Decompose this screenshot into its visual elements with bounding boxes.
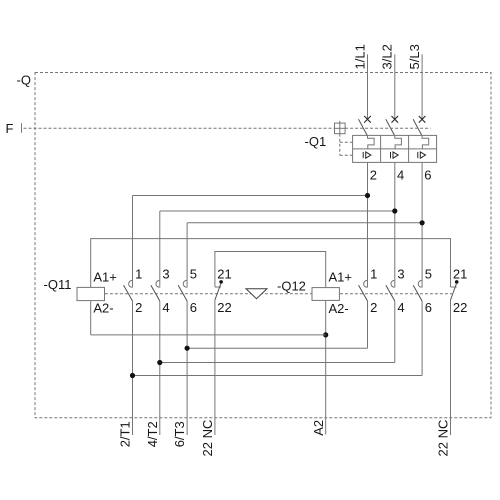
breaker output wire 2: [367, 162, 369, 287]
feed wire phase 1 vertical: [132, 196, 134, 288]
supply wire 3/L2: [394, 54, 396, 119]
wire Q11 out 4 to T2: [159, 301, 161, 435]
Q11 aux dot: [219, 280, 223, 284]
svg-text:5: 5: [190, 267, 197, 282]
trip linkage dashed vertical: [339, 134, 341, 156]
contactor Q12 fixed contact 1: [364, 280, 367, 287]
svg-text:-Q11: -Q11: [44, 277, 72, 292]
thermal overload element pole 3: [422, 135, 429, 149]
breaker output wire 4: [394, 162, 396, 287]
wire Q12 aux 22 down: [450, 300, 452, 435]
breaker body box: [353, 135, 437, 162]
junction dot crossover 1: [185, 346, 190, 351]
wire Q12 out 6 to T1 horizontal: [133, 375, 423, 377]
trip unit square: [335, 123, 346, 134]
supply wire 1/L1: [367, 54, 369, 119]
svg-text:22 NC: 22 NC: [200, 420, 215, 457]
coil Q11: [77, 287, 105, 300]
contactor Q12 blade 1/2: [359, 285, 368, 301]
junction dot phase 1: [365, 193, 370, 198]
contactor Q11 blade 1/2: [124, 285, 133, 301]
mechanical interlock triangle: [246, 289, 267, 299]
svg-text:-Q1: -Q1: [305, 134, 327, 149]
breaker contact X pole 3: [419, 116, 426, 123]
trip linkage dashed to magnetic: [340, 154, 353, 156]
wire Q11 aux 21 to Q12 A1: [215, 252, 326, 288]
svg-text:A1+: A1+: [329, 269, 353, 284]
wire Q11 A1 to Q12 aux 21: [91, 239, 451, 288]
breaker linkage dashed: [345, 127, 431, 129]
contactor Q12 blade 5/6: [413, 285, 422, 301]
feed wire phase 2 horizontal: [160, 210, 395, 212]
svg-text:6: 6: [424, 168, 431, 183]
trip line F dashed: [24, 127, 335, 129]
contactor Q12 fixed contact 5: [418, 280, 421, 287]
Q12 aux blade 21/22: [451, 283, 457, 300]
contactor Q11 blade 3/4: [151, 285, 160, 301]
svg-text:6/T3: 6/T3: [172, 421, 187, 447]
wire Q12 out 4 to T2 vertical: [394, 301, 396, 363]
wire Q11 aux 22 down: [214, 300, 216, 435]
svg-text:A2: A2: [311, 420, 326, 436]
junction dot crossover 3: [130, 373, 135, 378]
contactor Q11 fixed contact 5: [183, 280, 186, 287]
svg-text:22: 22: [453, 300, 467, 315]
contactor Q12 fixed contact 3: [391, 280, 394, 287]
svg-text:22 NC: 22 NC: [436, 420, 451, 457]
breaker blade pole 3: [413, 119, 422, 135]
svg-text:6: 6: [190, 300, 197, 315]
feed wire phase 3 horizontal: [187, 222, 422, 224]
breaker blade pole 1: [359, 119, 368, 135]
svg-text:5/L3: 5/L3: [407, 44, 422, 69]
svg-text:3: 3: [162, 267, 169, 282]
Q11 aux blade 21/22: [215, 283, 221, 300]
svg-text:1/L1: 1/L1: [352, 44, 367, 69]
feed wire phase 2 vertical: [159, 211, 161, 288]
wire Q11 out 2 to T1: [132, 301, 134, 435]
svg-text:3/L2: 3/L2: [380, 44, 395, 69]
svg-text:4: 4: [162, 300, 169, 315]
Q12 aux stub: [451, 286, 457, 288]
svg-text:2: 2: [370, 168, 377, 183]
feed wire phase 1 horizontal: [133, 195, 368, 197]
wire Q12 coil A2 down to terminal: [325, 300, 327, 434]
breaker body divider 1: [380, 135, 382, 162]
svg-text:A2-: A2-: [93, 300, 113, 315]
wire Q11 out 6 to T3: [186, 301, 188, 435]
svg-text:A2-: A2-: [329, 301, 349, 316]
magnetic trip I> pole 3: [418, 152, 426, 158]
wire Q12 out 6 to T1 vertical: [421, 301, 423, 376]
wire Q12 out 2 to T3 horizontal: [187, 347, 367, 349]
enclosure dashed box -Q: [35, 73, 491, 418]
contactor Q11 fixed contact 1: [129, 280, 132, 287]
breaker body divider mid: [353, 148, 437, 150]
svg-text:-Q: -Q: [17, 72, 31, 87]
svg-text:2/T1: 2/T1: [118, 421, 133, 447]
breaker body divider 2: [408, 135, 410, 162]
svg-text:22: 22: [217, 300, 231, 315]
svg-text:4: 4: [397, 168, 404, 183]
svg-text:1: 1: [135, 267, 142, 282]
magnetic trip I> pole 2: [391, 152, 399, 158]
trip line F tick: [21, 123, 23, 133]
svg-text:21: 21: [453, 267, 467, 282]
contactor Q11 fixed contact 3: [156, 280, 159, 287]
contactor Q12 blade 3/4: [386, 285, 395, 301]
magnetic trip I> pole 1: [363, 152, 371, 158]
svg-text:5: 5: [425, 267, 432, 282]
supply wire 5/L3: [421, 54, 423, 119]
junction dot crossover 2: [157, 360, 162, 365]
wire Q12 out 2 to T3 vertical: [367, 301, 369, 348]
actuation dashed line: [105, 293, 452, 295]
coil Q12: [312, 288, 339, 301]
svg-text:2: 2: [370, 300, 377, 315]
svg-text:F: F: [6, 121, 14, 136]
breaker contact X pole 1: [364, 116, 371, 123]
wire Q12 out 4 to T2 horizontal: [160, 362, 395, 364]
wire Q11 coil A2 down: [90, 301, 92, 335]
thermal overload element pole 1: [368, 135, 375, 149]
Q12 aux dot: [455, 280, 459, 284]
svg-text:4: 4: [397, 300, 404, 315]
svg-text:4/T2: 4/T2: [145, 421, 160, 447]
svg-text:-Q12: -Q12: [277, 279, 306, 294]
svg-text:21: 21: [217, 267, 231, 282]
svg-text:2: 2: [135, 300, 142, 315]
trip unit cross vertical: [339, 121, 341, 134]
breaker contact X pole 2: [392, 116, 399, 123]
junction dot A2 link: [323, 332, 328, 337]
breaker blade pole 2: [386, 119, 395, 135]
svg-text:3: 3: [397, 267, 404, 282]
contactor Q11 blade 5/6: [178, 285, 187, 301]
wire A2 link Q11 to Q12: [91, 334, 326, 336]
feed wire phase 3 vertical: [186, 223, 188, 288]
junction dot phase 3: [420, 220, 425, 225]
breaker output wire 6: [421, 162, 423, 287]
svg-text:A1+: A1+: [93, 269, 117, 284]
trip linkage dashed to thermal: [340, 141, 353, 143]
Q11 aux stub: [215, 286, 221, 288]
svg-text:6: 6: [425, 300, 432, 315]
svg-text:1: 1: [370, 267, 377, 282]
thermal overload element pole 2: [395, 135, 402, 149]
junction dot phase 2: [392, 208, 397, 213]
trip unit cross horizontal: [335, 127, 346, 129]
